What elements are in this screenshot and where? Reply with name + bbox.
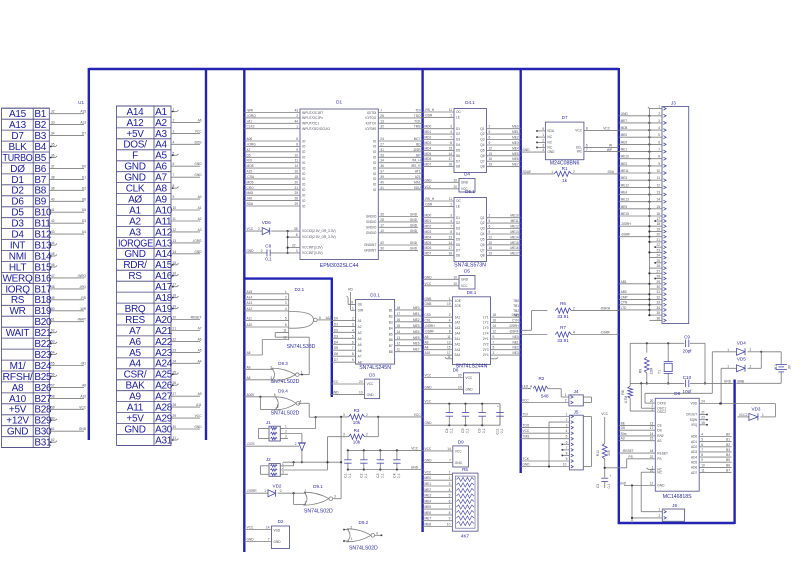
svg-text:B14: B14 (34, 251, 52, 262)
svg-text:A26: A26 (155, 381, 173, 392)
crystal Y1 (658, 343, 673, 384)
svg-text:NC: NC (547, 141, 552, 145)
svg-text:R6: R6 (560, 301, 566, 306)
svg-text:1: 1 (551, 170, 553, 174)
svg-text:TB3: TB3 (513, 314, 519, 318)
svg-text:23: 23 (173, 348, 177, 352)
svg-text:6: 6 (352, 340, 354, 344)
svg-text:GND: GND (79, 427, 87, 431)
svg-text:1A2: 1A2 (455, 321, 461, 325)
svg-text:D4: D4 (82, 230, 86, 234)
svg-text:57: 57 (51, 383, 55, 387)
svg-text:EPM3032SLC44: EPM3032SLC44 (320, 263, 359, 269)
svg-text:A29: A29 (155, 414, 173, 425)
svg-text:LE: LE (456, 205, 460, 209)
svg-text:20: 20 (650, 399, 654, 403)
wire D8 nc pins (641, 465, 655, 511)
gate D9.3 SN74LS02D (271, 361, 300, 385)
svg-text:15: 15 (650, 437, 654, 441)
svg-text:SN74LS245N: SN74LS245N (359, 365, 391, 371)
svg-text:35: 35 (380, 213, 384, 217)
svg-text:VCCIO(2.5V_OR_3.3V): VCCIO(2.5V_OR_3.3V) (302, 229, 336, 233)
svg-text:9: 9 (296, 148, 298, 152)
svg-text:33.91: 33.91 (557, 338, 569, 343)
wire D5 power pins (423, 275, 459, 286)
svg-text:A13: A13 (9, 120, 27, 131)
svg-text:VD2: VD2 (273, 483, 282, 488)
svg-text:11: 11 (295, 159, 299, 163)
svg-text:CLK2: CLK2 (247, 125, 255, 129)
svg-text:-RD: -RD (80, 296, 86, 300)
svg-text:GND: GND (410, 246, 418, 250)
svg-text:2: 2 (270, 365, 272, 369)
svg-text:19: 19 (489, 252, 493, 256)
svg-text:2: 2 (280, 489, 282, 493)
wire D8 oscillator pins (630, 383, 655, 411)
svg-text:GND: GND (461, 180, 469, 184)
svg-text:11: 11 (447, 335, 451, 339)
svg-text:3: 3 (270, 376, 272, 380)
svg-text:16: 16 (650, 469, 654, 473)
svg-text:A1: A1 (198, 206, 202, 210)
svg-text:42: 42 (380, 241, 384, 245)
svg-text:D6: D6 (456, 243, 460, 247)
svg-text:6: 6 (449, 324, 451, 328)
svg-text:CKFS: CKFS (657, 401, 666, 405)
svg-text:VCC: VCC (247, 227, 254, 231)
svg-text:11: 11 (449, 108, 453, 112)
svg-text:D6: D6 (334, 352, 338, 356)
svg-text:2: 2 (658, 112, 660, 116)
svg-text:-WR: -WR (80, 307, 87, 311)
svg-text:GND: GND (194, 425, 202, 429)
svg-text:GNB: GNB (425, 302, 432, 306)
svg-text:A11: A11 (247, 316, 253, 320)
svg-text:28: 28 (294, 197, 298, 201)
wire bus branch to D3.1 (244, 278, 331, 398)
svg-text:CE: CE (657, 424, 661, 428)
svg-text:GNB: GNB (425, 297, 432, 301)
svg-text:16: 16 (656, 212, 660, 216)
wire J3 harness lower (619, 217, 662, 320)
svg-text:B26: B26 (34, 383, 52, 394)
svg-text:A3: A3 (358, 331, 362, 335)
svg-text:MOE: MOE (247, 164, 254, 168)
svg-text:27: 27 (173, 392, 177, 396)
svg-text:ME13: ME13 (510, 230, 519, 234)
diode VD2 (244, 483, 294, 504)
svg-text:1: 1 (727, 364, 729, 368)
wire X2 pin stubs (171, 108, 202, 441)
svg-text:5: 5 (285, 316, 287, 320)
svg-text:J1: J1 (266, 420, 271, 425)
capacitor C10 (683, 375, 693, 394)
svg-text:2: 2 (173, 118, 175, 122)
svg-text:3: 3 (542, 143, 544, 147)
svg-text:10: 10 (173, 206, 177, 210)
svg-text:A9: A9 (198, 392, 202, 396)
svg-text:MD7: MD7 (425, 252, 432, 256)
svg-text:1: 1 (542, 133, 544, 137)
svg-text:MD5: MD5 (425, 241, 432, 245)
svg-text:B18: B18 (34, 295, 52, 306)
svg-text:VD4: VD4 (737, 341, 746, 346)
svg-text:IO: IO (302, 188, 306, 192)
wire D8 control pins (619, 421, 656, 440)
svg-text:4: 4 (450, 130, 452, 134)
svg-text:27: 27 (656, 269, 660, 273)
svg-text:ME17: ME17 (510, 252, 519, 256)
svg-text:VCC: VCC (195, 414, 202, 418)
svg-text:18: 18 (493, 313, 497, 317)
svg-text:R/m: R/m (621, 432, 627, 436)
svg-text:/TA_H: /TA_H (412, 159, 421, 163)
svg-text:18: 18 (448, 252, 452, 256)
diode VD5 (721, 352, 761, 372)
svg-text:22: 22 (650, 455, 654, 459)
svg-text:D7: D7 (456, 159, 460, 163)
svg-text:VCC: VCC (425, 282, 432, 286)
svg-text:GND: GND (410, 223, 418, 227)
svg-text:IO: IO (373, 156, 377, 160)
svg-text:D7: D7 (11, 131, 24, 142)
wire D4 power pins (423, 178, 459, 189)
svg-text:IO/TDI: IO/TDI (367, 111, 376, 115)
svg-text:6: 6 (658, 140, 660, 144)
svg-text:A8: A8 (247, 376, 251, 380)
svg-text:548: 548 (541, 394, 549, 399)
svg-text:C2: C2 (359, 473, 363, 477)
svg-text:CRO: CRO (247, 186, 255, 190)
wire D9.1 pins (294, 489, 342, 504)
svg-text:0,1: 0,1 (380, 473, 384, 478)
svg-text:AT1: AT1 (415, 170, 421, 174)
svg-text:IO: IO (373, 139, 377, 143)
wire D9.3 output to D2.1 input7 (275, 329, 309, 375)
svg-text:1: 1 (285, 425, 287, 429)
svg-text:RESET: RESET (657, 451, 668, 455)
svg-text:-DSRF: -DSRF (509, 330, 519, 334)
svg-text:4: 4 (450, 219, 452, 223)
svg-text:VCC: VCC (425, 400, 432, 404)
svg-text:TCK: TCK (414, 119, 421, 123)
svg-text:WC: WC (577, 150, 583, 154)
svg-text:A13: A13 (155, 238, 173, 249)
wire R5 pins (423, 470, 453, 526)
svg-text:3: 3 (343, 413, 345, 417)
svg-text:5: 5 (493, 346, 495, 350)
svg-text:39: 39 (51, 186, 55, 190)
svg-text:6: 6 (296, 137, 298, 141)
wire D4.1 right pins (487, 125, 521, 167)
gate D2.1 SN74LS30D (287, 287, 318, 350)
svg-text:ME13: ME13 (621, 198, 630, 202)
svg-text:ME0: ME0 (425, 476, 432, 480)
svg-text:SN74LS38D: SN74LS38D (287, 344, 316, 350)
svg-text:15: 15 (489, 152, 493, 156)
svg-text:7: 7 (268, 538, 270, 542)
svg-text:8: 8 (450, 230, 452, 234)
svg-text:B2: B2 (34, 120, 46, 131)
svg-text:A9: A9 (425, 340, 429, 344)
svg-text:15: 15 (489, 241, 493, 245)
svg-text:D9: D9 (458, 440, 464, 445)
svg-text:18: 18 (397, 306, 401, 310)
svg-text:D1: D1 (82, 175, 86, 179)
gate D9.1 SN74LS02D (304, 484, 333, 515)
svg-text:SN74LS244N: SN74LS244N (456, 363, 488, 369)
svg-text:W: W (609, 143, 612, 147)
svg-text:SQW: SQW (690, 418, 698, 422)
svg-text:Y1: Y1 (658, 370, 662, 374)
wire R3 feedback to D9.1 (340, 417, 342, 499)
svg-text:7: 7 (450, 136, 452, 140)
svg-text:2: 2 (542, 138, 544, 142)
svg-text:ME11: ME11 (621, 169, 629, 173)
svg-text:10k: 10k (353, 440, 361, 445)
svg-text:B21: B21 (34, 328, 52, 339)
svg-text:32: 32 (656, 295, 660, 299)
svg-text:13: 13 (380, 119, 384, 123)
svg-text:IO: IO (302, 172, 306, 176)
svg-text:6: 6 (173, 162, 175, 166)
svg-text:IO: IO (373, 166, 377, 170)
svg-text:24: 24 (380, 137, 384, 141)
svg-text:10: 10 (359, 391, 363, 395)
svg-text:A15: A15 (9, 109, 27, 120)
svg-text:0,1: 0,1 (607, 484, 611, 489)
svg-text:A19: A19 (155, 304, 173, 315)
svg-text:MD0: MD0 (425, 214, 432, 218)
svg-text:A2: A2 (129, 216, 141, 227)
svg-text:CLK: CLK (126, 184, 145, 195)
capacitor C8 (244, 244, 300, 262)
wire D4.1 left pins (423, 108, 454, 167)
svg-text:VCC: VCC (411, 446, 418, 450)
svg-text:5: 5 (489, 130, 491, 134)
svg-text:15: 15 (447, 346, 451, 350)
svg-text:B30: B30 (34, 427, 52, 438)
svg-text:IO: IO (302, 166, 306, 170)
svg-text:D0: D0 (82, 164, 86, 168)
svg-text:18: 18 (656, 222, 660, 226)
svg-text:A005: A005 (247, 393, 255, 397)
svg-text:ME12: ME12 (621, 183, 630, 187)
svg-text:IO: IO (302, 177, 306, 181)
svg-text:14: 14 (650, 432, 654, 436)
svg-text:8: 8 (450, 141, 452, 145)
wire D9.4 pins (244, 393, 309, 417)
svg-text:VCCINT(3.3V): VCCINT(3.3V) (302, 251, 323, 255)
wire VD4 anode to VDD rail (645, 352, 712, 394)
svg-text:D1: D1 (456, 216, 460, 220)
svg-text:CSR/: CSR/ (124, 370, 147, 381)
wire J3 vertical tie (648, 109, 650, 316)
svg-text:9: 9 (658, 162, 660, 166)
svg-text:A31: A31 (155, 435, 173, 446)
diode VD6 (244, 220, 300, 235)
svg-text:VCC: VCC (247, 526, 254, 530)
svg-text:A3: A3 (129, 227, 141, 238)
svg-text:SDA: SDA (247, 202, 254, 206)
svg-text:F: F (132, 151, 138, 162)
svg-text:J3: J3 (671, 100, 676, 105)
svg-text:AD1: AD1 (691, 440, 697, 444)
wire D8.1 right pins (491, 313, 521, 355)
svg-text:-DSRR: -DSRR (247, 489, 258, 493)
resistor R6 (521, 301, 619, 330)
svg-text:MD4: MD4 (425, 146, 432, 150)
wire D8.1 bottom hooks (445, 355, 498, 359)
wire D2 power pins (244, 526, 271, 542)
svg-text:B20: B20 (34, 317, 52, 328)
svg-text:TB1: TB1 (513, 304, 519, 308)
svg-text:2: 2 (750, 364, 752, 368)
svg-text:59: 59 (51, 405, 55, 409)
svg-text:DOS/: DOS/ (123, 140, 147, 151)
svg-text:D9.4: D9.4 (278, 389, 288, 394)
svg-text:A25: A25 (155, 370, 173, 381)
svg-text:26: 26 (380, 114, 384, 118)
IC D5 power block (459, 269, 475, 290)
svg-text:33: 33 (380, 153, 384, 157)
svg-text:BAK: BAK (125, 381, 145, 392)
svg-text:3: 3 (450, 125, 452, 129)
svg-text:0,1: 0,1 (500, 428, 504, 433)
svg-text:IO: IO (373, 188, 377, 192)
svg-text:A28: A28 (155, 403, 173, 414)
svg-text:B19: B19 (34, 306, 52, 317)
capacitor bank C9-C11 with wires (424, 400, 504, 435)
svg-text:-RS_H: -RS_H (425, 108, 435, 112)
svg-text:17: 17 (650, 426, 654, 430)
svg-text:NC: NC (547, 146, 552, 150)
svg-text:14: 14 (447, 447, 451, 451)
svg-text:GND: GND (621, 112, 629, 116)
svg-text:14: 14 (266, 526, 270, 530)
svg-text:18: 18 (448, 163, 452, 167)
svg-text:IO: IO (373, 183, 377, 187)
svg-text:4: 4 (566, 429, 568, 433)
svg-text:13: 13 (173, 239, 177, 243)
svg-text:ME2: ME2 (413, 318, 420, 322)
svg-text:9: 9 (352, 358, 354, 362)
svg-text:2: 2 (295, 442, 297, 446)
svg-text:D3: D3 (11, 219, 24, 230)
svg-text:D3: D3 (456, 138, 460, 142)
svg-text:A8: A8 (12, 383, 24, 394)
svg-text:-DOS: -DOS (194, 140, 202, 144)
svg-text:A9: A9 (155, 195, 167, 206)
svg-text:14: 14 (448, 241, 452, 245)
svg-text:24: 24 (656, 254, 660, 258)
svg-text:GND: GND (194, 173, 202, 177)
svg-text:11: 11 (173, 217, 177, 221)
svg-text:A7: A7 (198, 327, 202, 331)
svg-text:2: 2 (565, 399, 567, 403)
svg-text:D6: D6 (456, 154, 460, 158)
svg-text:0,1: 0,1 (364, 473, 368, 478)
svg-text:WERQ: WERQ (3, 273, 33, 284)
svg-text:48: 48 (51, 285, 55, 289)
svg-text:B7: B7 (389, 344, 393, 348)
svg-text:Q4: Q4 (480, 143, 484, 147)
svg-text:VCC: VCC (522, 399, 529, 403)
svg-text:VCC: VCC (455, 449, 462, 453)
svg-text:R2: R2 (538, 376, 544, 381)
wire D3.1 B pins (395, 306, 422, 352)
svg-text:-IORQ: -IORQ (247, 114, 257, 118)
svg-text:MD3: MD3 (425, 230, 432, 234)
svg-text:7: 7 (586, 148, 588, 152)
svg-text:10: 10 (294, 153, 298, 157)
wire D8.1 left pins (423, 297, 453, 355)
svg-text:31: 31 (656, 290, 660, 294)
wire D1 right JTAG pins (378, 109, 422, 129)
svg-text:ME7: ME7 (425, 517, 432, 521)
wire D1 GNDINT pins (378, 241, 418, 250)
svg-text:A21: A21 (415, 175, 421, 179)
svg-text:VCC: VCC (425, 470, 432, 474)
svg-text:GND: GND (194, 162, 202, 166)
svg-text:C6: C6 (478, 428, 482, 432)
svg-text:R5: R5 (462, 467, 468, 472)
svg-text:2Y3: 2Y3 (483, 348, 489, 352)
svg-text:B8: B8 (34, 186, 46, 197)
svg-text:D2: D2 (456, 221, 460, 225)
svg-text:A11: A11 (127, 403, 144, 414)
svg-text:16: 16 (493, 319, 497, 323)
svg-text:+5V: +5V (9, 405, 27, 416)
capacitor C9 (683, 335, 693, 354)
svg-text:14: 14 (397, 330, 401, 334)
battery B1 (736, 352, 791, 384)
svg-text:D2: D2 (82, 186, 86, 190)
svg-text:DIR: DIR (358, 308, 364, 312)
svg-text:1Y3: 1Y3 (483, 326, 489, 330)
svg-text:1: 1 (450, 202, 452, 206)
svg-text:1A4: 1A4 (455, 332, 461, 336)
svg-text:GND: GND (425, 275, 433, 279)
connector J5 header (569, 409, 591, 470)
svg-text:C1: C1 (343, 473, 347, 477)
svg-text:1Y1: 1Y1 (483, 315, 489, 319)
svg-text:MO5: MO5 (247, 180, 254, 184)
svg-text:B3: B3 (726, 448, 730, 452)
svg-text:A12: A12 (155, 227, 173, 238)
svg-text:8: 8 (319, 316, 321, 320)
svg-text:GND: GND (523, 148, 531, 152)
svg-text:7: 7 (173, 173, 175, 177)
svg-text:GND: GND (425, 178, 433, 182)
svg-text:3V: 3V (788, 364, 792, 369)
svg-text:3: 3 (285, 435, 287, 439)
svg-text:AD4: AD4 (691, 455, 697, 459)
svg-text:D9.3: D9.3 (278, 361, 288, 366)
svg-text:Q1: Q1 (480, 216, 484, 220)
svg-text:GNDINT: GNDINT (364, 243, 376, 247)
resistor network R5 (452, 467, 478, 539)
svg-text:MD2: MD2 (425, 136, 432, 140)
svg-text:2Y1: 2Y1 (483, 337, 489, 341)
svg-text:ME5: ME5 (425, 505, 432, 509)
svg-text:33: 33 (656, 301, 660, 305)
svg-text:D9.1: D9.1 (313, 484, 323, 489)
wire VD6 to VCC pins (287, 231, 301, 254)
svg-text:IO/TCK: IO/TCK (366, 122, 377, 126)
svg-text:C8: C8 (265, 244, 271, 249)
svg-text:11: 11 (449, 197, 453, 201)
